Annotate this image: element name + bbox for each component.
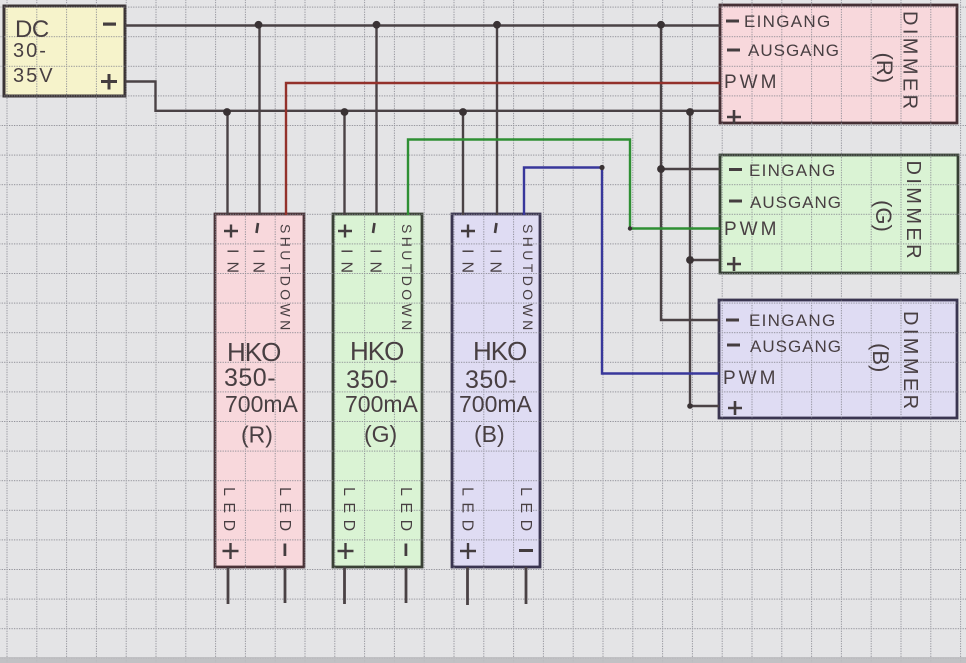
wire: U3 LED- stub — [525, 567, 528, 604]
wire: U2 LED+ stub — [343, 567, 346, 604]
svg-text:AUSGANG: AUSGANG — [748, 41, 840, 60]
junction on plus rail at U3 +IN — [459, 108, 467, 116]
svg-text:(G): (G) — [871, 200, 896, 232]
svg-text:(R): (R) — [241, 422, 273, 448]
junction on plus rail at dimmer branch — [686, 108, 694, 116]
svg-text:HKO: HKO — [350, 336, 403, 366]
svg-text:LED: LED — [397, 487, 414, 538]
wire: plus rail branch down to dimmer B plus — [690, 111, 719, 406]
svg-text:700mA: 700mA — [225, 391, 299, 417]
U3 pin +IN plus mark — [461, 225, 475, 238]
svg-text:HKO: HKO — [227, 337, 280, 367]
svg-text:350-: 350- — [346, 366, 398, 394]
svg-text:(B): (B) — [474, 421, 505, 447]
svg-text:IN: IN — [367, 249, 384, 281]
wire: plus rail to U1 +IN pin — [226, 111, 228, 215]
wire: U1 LED- stub — [284, 567, 287, 603]
PS1 plus terminal — [101, 74, 117, 90]
svg-text:700mA: 700mA — [459, 391, 533, 417]
U2 pin +IN plus mark — [338, 225, 352, 238]
svg-text:PWM: PWM — [723, 368, 778, 389]
LED driver U3 (B) box — [452, 214, 540, 567]
svg-text:LED: LED — [276, 487, 293, 538]
wire: red PWM net, U1 SHUTDOWN to dimmer R PWM — [286, 83, 720, 215]
svg-text:IN: IN — [224, 249, 241, 281]
svg-text:35V: 35V — [13, 65, 55, 87]
U3 pin -IN minus tick — [495, 223, 497, 233]
svg-text:(B): (B) — [868, 343, 893, 372]
svg-text:IN: IN — [338, 249, 355, 281]
svg-text:SHUTDOWN: SHUTDOWN — [520, 224, 536, 334]
svg-text:DIMMER: DIMMER — [899, 11, 921, 113]
junction on minus rail at U3 -IN — [493, 21, 501, 29]
wire: U1 LED+ stub — [227, 567, 230, 604]
wire: minus rail to U2 -IN pin — [375, 26, 377, 216]
dimmer U4 pin plus mark — [727, 110, 741, 124]
PS1 minus terminal — [103, 23, 116, 26]
paper bottom edge shading — [0, 657, 966, 663]
svg-text:PWM: PWM — [724, 72, 779, 93]
wire: branch to dimmer G plus — [690, 259, 720, 261]
pen blob at blue wire corner — [599, 165, 604, 170]
junction on plus rail at U1 +IN — [223, 108, 231, 116]
svg-text:AUSGANG: AUSGANG — [750, 193, 842, 212]
U1 pin -IN minus tick — [257, 223, 259, 233]
svg-text:LED: LED — [340, 487, 357, 538]
wire: branch to dimmer G EINGANG — [661, 168, 720, 170]
wire: plus rail to U2 +IN pin — [343, 111, 345, 215]
dimmer U4 pin label -EINGANG — [726, 20, 739, 23]
dimmer U4 pin label -AUSGANG — [727, 49, 740, 52]
wire: green PWM net, U2 SHUTDOWN to dimmer G PWM — [408, 140, 720, 229]
junction on minus rail at dimmer branch — [657, 21, 665, 29]
wire: DC plus to plus rail to dimmer R plus — [125, 82, 720, 111]
wire: minus rail branch down to dimmer B EINGANG — [661, 26, 719, 321]
svg-text:HKO: HKO — [473, 336, 526, 366]
dimmer U5 pin label -AUSGANG — [729, 200, 742, 203]
dimmer module U4 (R) box — [720, 5, 957, 123]
junction on minus rail at U1 -IN — [255, 21, 263, 29]
svg-text:IN: IN — [459, 249, 476, 281]
dimmer module U6 (B) box — [719, 300, 957, 418]
svg-text:EINGANG: EINGANG — [744, 12, 832, 31]
svg-text:DIMMER: DIMMER — [899, 311, 921, 413]
svg-text:350-: 350- — [224, 364, 276, 392]
dimmer U6 pin label -EINGANG — [726, 319, 739, 322]
junction on minus rail at U2 -IN — [373, 21, 381, 29]
wire: DC minus rail to dimmer R EINGANG — [125, 24, 720, 26]
svg-text:DC: DC — [15, 16, 49, 43]
U2 pin -IN minus tick — [373, 223, 375, 233]
U1 pin +IN plus mark — [224, 225, 238, 238]
dimmer U5 pin plus mark — [727, 257, 741, 271]
svg-text:(R): (R) — [872, 53, 897, 84]
junction minus branch to dimmer G EINGANG — [657, 165, 665, 173]
svg-text:SHUTDOWN: SHUTDOWN — [278, 224, 294, 334]
pen blob at plus branch corner to dimmer B — [687, 403, 693, 409]
svg-text:LED: LED — [220, 487, 237, 538]
svg-text:IN: IN — [487, 249, 504, 281]
wire: minus rail to U1 -IN pin — [258, 26, 260, 216]
wire: U2 LED- stub — [405, 567, 408, 603]
dimmer module U5 (G) box — [720, 155, 958, 273]
svg-text:LED: LED — [459, 487, 476, 538]
dimmer U5 pin label -EINGANG — [729, 168, 742, 171]
dimmer U6 pin label -AUSGANG — [727, 344, 740, 347]
wire: plus rail to U3 +IN pin — [462, 111, 464, 215]
svg-text:AUSGANG: AUSGANG — [750, 337, 842, 356]
svg-text:DIMMER: DIMMER — [902, 161, 924, 263]
svg-text:LED: LED — [517, 487, 534, 538]
svg-text:(G): (G) — [364, 421, 397, 447]
LED driver U1 (R) box — [215, 214, 304, 567]
svg-text:EINGANG: EINGANG — [749, 161, 837, 180]
wire: blue PWM net, U3 SHUTDOWN to dimmer B PWM — [524, 168, 719, 374]
svg-text:700mA: 700mA — [345, 391, 419, 417]
dimmer U6 pin plus mark — [728, 401, 742, 415]
wire: U3 LED+ stub — [466, 567, 469, 605]
svg-text:SHUTDOWN: SHUTDOWN — [399, 224, 415, 334]
junction plus branch to dimmer G plus — [686, 256, 694, 264]
svg-text:IN: IN — [250, 249, 267, 281]
svg-text:350-: 350- — [465, 366, 517, 394]
wire: minus rail to U3 -IN pin — [496, 26, 498, 216]
power supply PS1 DC 30-35V box — [4, 6, 125, 96]
junction on plus rail at U2 +IN — [341, 108, 349, 116]
svg-text:PWM: PWM — [724, 219, 779, 240]
pen blob at green wire corner — [628, 226, 632, 230]
LED driver U2 (G) box — [333, 214, 422, 567]
svg-text:30-: 30- — [13, 40, 48, 62]
svg-text:EINGANG: EINGANG — [749, 311, 837, 330]
